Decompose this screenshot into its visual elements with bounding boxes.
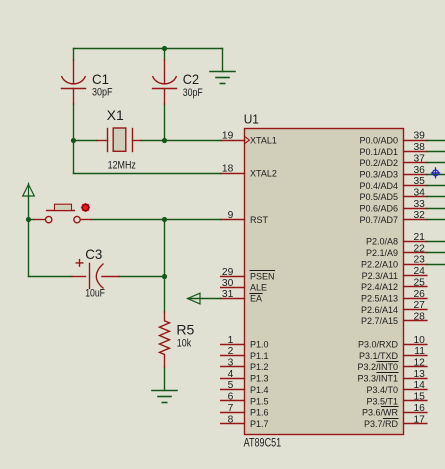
pin 27 P2.6/A14	[361, 300, 427, 315]
svg-text:3: 3	[228, 358, 234, 369]
wire C1 top lead	[73, 49, 75, 61]
svg-text:15: 15	[413, 392, 425, 403]
wire R5 bottom segment	[164, 367, 166, 391]
node marker blue crosshair on pin 36 wire	[431, 167, 440, 178]
svg-text:11: 11	[414, 346, 425, 357]
pin 11 P3.1/TXD	[359, 346, 427, 361]
svg-text:24: 24	[413, 266, 425, 277]
wire drop to top-right ground	[222, 49, 224, 72]
pin 3 P1.2	[221, 358, 269, 373]
svg-text:30: 30	[222, 278, 234, 289]
svg-text:39: 39	[413, 131, 425, 142]
value label 30pF of C1	[92, 86, 113, 98]
value label 30pF of C2	[183, 87, 203, 99]
pin 21 P2.0/A8	[366, 232, 445, 247]
wire top rail from C1 to ground	[74, 48, 223, 50]
svg-text:ALE: ALE	[250, 283, 267, 293]
wire C1 bottom lead	[73, 104, 75, 141]
ground symbol below R5	[152, 391, 177, 403]
wire drop from XTAL1 node to XTAL2 row	[73, 141, 75, 174]
svg-text:P3.5/T1: P3.5/T1	[366, 396, 398, 406]
svg-text:P3.3/INT1: P3.3/INT1	[357, 374, 398, 384]
capacitor C3 electrolytic	[72, 259, 119, 289]
svg-text:P2.3/A11: P2.3/A11	[362, 271, 398, 281]
wire XTAL1 net crystal to pin 19	[141, 140, 221, 142]
svg-text:37: 37	[413, 153, 425, 164]
pin 35 P0.4/AD4	[359, 176, 445, 191]
wire C3 right segment	[119, 276, 165, 278]
svg-text:XTAL2: XTAL2	[250, 168, 277, 178]
svg-text:10uF: 10uF	[85, 288, 105, 300]
svg-text:38: 38	[413, 142, 425, 153]
svg-text:25: 25	[413, 277, 425, 288]
svg-text:P0.5/AD5: P0.5/AD5	[359, 192, 398, 202]
svg-text:1: 1	[228, 335, 234, 346]
label X1	[107, 107, 124, 123]
svg-text:P1.6: P1.6	[250, 408, 269, 418]
wire power terminal lead	[28, 197, 30, 220]
pin 16 P3.6/WR	[362, 403, 427, 418]
svg-text:16: 16	[413, 403, 425, 414]
wire button to pin 9 RST	[91, 219, 221, 221]
pin 30 ALE	[221, 278, 267, 293]
svg-text:XTAL1: XTAL1	[250, 135, 277, 145]
pin 28 P2.7/A15	[361, 311, 427, 326]
svg-text:EA: EA	[250, 294, 262, 304]
svg-text:19: 19	[222, 131, 234, 142]
svg-text:5: 5	[228, 380, 234, 391]
svg-text:35: 35	[413, 176, 425, 187]
svg-text:P3.4/T0: P3.4/T0	[366, 385, 398, 395]
node junction C3-R5	[162, 274, 167, 279]
pin 17 P3.7/RD	[364, 414, 427, 429]
wire EA pin to terminal arrow	[188, 298, 221, 300]
svg-text:30pF: 30pF	[183, 87, 203, 99]
svg-text:P0.2/AD2: P0.2/AD2	[359, 158, 398, 168]
svg-text:P3.0/RXD: P3.0/RXD	[358, 340, 399, 350]
capacitor C2	[153, 60, 177, 104]
svg-text:C1: C1	[92, 71, 109, 87]
svg-text:33: 33	[413, 199, 425, 210]
svg-text:P3.7/RD: P3.7/RD	[364, 419, 399, 429]
pin 32 P0.7/AD7	[359, 210, 445, 225]
svg-text:17: 17	[413, 414, 425, 425]
pin 18 XTAL2	[221, 164, 277, 179]
value label 10uF	[85, 288, 105, 300]
resistor R5	[160, 312, 170, 367]
svg-text:P1.5: P1.5	[250, 396, 269, 406]
svg-text:RST: RST	[250, 215, 269, 225]
svg-text:22: 22	[413, 243, 425, 254]
svg-text:18: 18	[222, 164, 234, 175]
svg-text:P3.6/WR: P3.6/WR	[362, 408, 399, 418]
node junction C2 top rail	[162, 46, 167, 51]
pin 38 P0.1/AD1	[359, 142, 445, 157]
svg-text:9: 9	[228, 210, 234, 221]
value label AT89C51	[244, 438, 282, 450]
svg-text:8: 8	[228, 414, 234, 425]
wire reset vertical left branch	[28, 220, 30, 277]
pin 10 P3.0/RXD	[358, 335, 427, 350]
svg-text:X1: X1	[107, 107, 124, 123]
pin 6 P1.5	[221, 392, 269, 407]
push button reset switch	[34, 204, 91, 223]
wire XTAL2 net to pin 18	[74, 173, 221, 175]
svg-text:PSEN: PSEN	[250, 272, 275, 282]
pin 8 P1.7	[221, 414, 269, 429]
svg-text:P0.1/AD1: P0.1/AD1	[359, 147, 398, 157]
pin 37 P0.2/AD2	[359, 153, 445, 168]
terminal arrow at EA pin 31	[188, 293, 201, 304]
crystal X1	[97, 128, 141, 152]
wire R5 top segment	[164, 277, 166, 313]
wire RST row left segment	[29, 219, 35, 221]
svg-text:14: 14	[413, 380, 425, 391]
svg-text:12: 12	[413, 358, 425, 369]
svg-text:P2.1/A9: P2.1/A9	[366, 248, 398, 258]
svg-text:U1: U1	[244, 113, 259, 127]
pin 7 P1.6	[221, 403, 269, 418]
svg-text:C3: C3	[85, 246, 102, 262]
svg-text:P0.7/AD7: P0.7/AD7	[359, 215, 398, 225]
svg-text:4: 4	[228, 369, 234, 380]
pin 15 P3.5/T1	[366, 392, 426, 407]
svg-text:P2.2/A10: P2.2/A10	[361, 259, 398, 269]
svg-text:29: 29	[222, 267, 234, 278]
label R5	[176, 321, 194, 337]
svg-text:28: 28	[413, 311, 425, 322]
pin 22 P2.1/A9	[366, 243, 445, 258]
pin 5 P1.4	[221, 380, 269, 395]
svg-text:31: 31	[222, 289, 234, 300]
pin 25 P2.4/A12	[361, 277, 427, 292]
pin 36 P0.3/AD3	[359, 165, 445, 180]
svg-text:6: 6	[228, 392, 234, 403]
svg-text:P1.4: P1.4	[250, 385, 269, 395]
pin 33 P0.6/AD6	[359, 199, 445, 214]
svg-text:10: 10	[413, 335, 425, 346]
wire C3 left segment	[29, 276, 73, 278]
svg-text:10k: 10k	[177, 337, 192, 349]
node junction C1-crystal-XTAL1	[71, 138, 76, 143]
pin 9 RST	[221, 210, 269, 225]
power terminal arrow (VCC)	[23, 183, 35, 197]
svg-text:P3.2/INT0: P3.2/INT0	[357, 362, 398, 372]
svg-text:2: 2	[228, 346, 234, 357]
svg-text:P0.4/AD4: P0.4/AD4	[359, 181, 398, 191]
svg-text:21: 21	[413, 232, 425, 243]
svg-text:P0.0/AD0: P0.0/AD0	[359, 135, 398, 145]
pin 24 P2.3/A11	[362, 266, 427, 281]
wire C2 top lead	[164, 49, 166, 61]
svg-text:P2.5/A13: P2.5/A13	[361, 293, 398, 303]
svg-text:P0.6/AD6: P0.6/AD6	[359, 204, 398, 214]
svg-text:13: 13	[413, 369, 425, 380]
svg-text:C2: C2	[183, 71, 199, 87]
svg-text:P2.0/A8: P2.0/A8	[366, 237, 398, 247]
IC U1 AT89C51 microcontroller body	[245, 129, 404, 435]
pin 34 P0.5/AD5	[359, 187, 445, 202]
pin 1 P1.0	[221, 335, 269, 350]
button actuator marker red star	[81, 203, 91, 213]
svg-text:P1.0: P1.0	[250, 340, 269, 350]
svg-text:P2.4/A12: P2.4/A12	[361, 282, 398, 292]
svg-text:P2.7/A15: P2.7/A15	[361, 316, 398, 326]
pin 4 P1.3	[221, 369, 269, 384]
label U1	[244, 113, 259, 127]
label C3	[85, 246, 102, 262]
label C1	[92, 71, 109, 87]
pin 39 P0.0/AD0	[359, 131, 445, 146]
label C2	[183, 71, 199, 87]
svg-text:32: 32	[413, 210, 425, 221]
pin 23 P2.2/A10	[361, 255, 445, 270]
svg-text:P1.1: P1.1	[250, 351, 269, 361]
svg-text:34: 34	[413, 187, 425, 198]
pin 13 P3.3/INT1	[357, 369, 426, 384]
svg-text:7: 7	[228, 403, 234, 414]
pin 12 P3.2/INT0	[357, 358, 426, 373]
svg-text:30pF: 30pF	[92, 86, 113, 98]
wire XTAL1 net left of crystal	[74, 140, 98, 142]
svg-text:12MHz: 12MHz	[108, 160, 136, 172]
svg-text:26: 26	[413, 289, 425, 300]
svg-text:23: 23	[413, 255, 425, 266]
svg-text:P1.7: P1.7	[250, 419, 269, 429]
svg-text:AT89C51: AT89C51	[244, 438, 282, 450]
svg-text:P2.6/A14: P2.6/A14	[361, 305, 398, 315]
pin 26 P2.5/A13	[361, 289, 427, 304]
svg-text:P1.3: P1.3	[250, 374, 269, 384]
wire C2 bottom lead	[164, 104, 166, 141]
wire RST junction drop to C3 row	[164, 220, 166, 277]
svg-text:36: 36	[413, 165, 425, 176]
pin 19 XTAL1	[221, 131, 277, 146]
pin 29 PSEN	[221, 267, 275, 282]
pin 14 P3.4/T0	[366, 380, 426, 395]
value label 10k	[177, 337, 192, 349]
pin 2 P1.1	[221, 346, 269, 361]
svg-text:P0.3/AD3: P0.3/AD3	[359, 169, 398, 179]
value label 12MHz	[108, 160, 136, 172]
pin 31 EA	[221, 289, 262, 304]
svg-text:27: 27	[413, 300, 425, 311]
svg-text:P1.2: P1.2	[250, 362, 269, 372]
node junction power-RST row	[26, 217, 31, 222]
svg-text:P3.1/TXD: P3.1/TXD	[359, 351, 399, 361]
ground symbol top right	[210, 72, 235, 84]
node junction C2-crystal-pin19	[162, 138, 167, 143]
svg-text:R5: R5	[176, 321, 194, 337]
node junction RST-reset branch	[162, 217, 167, 222]
capacitor C1	[62, 60, 86, 104]
